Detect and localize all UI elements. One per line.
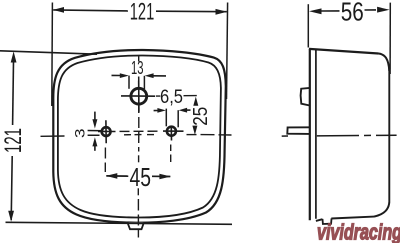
svg-text:25: 25 [190,107,212,126]
svg-text:121: 121 [130,0,155,25]
svg-text:vividracing: vividracing [317,220,400,243]
svg-text:3: 3 [72,128,87,138]
svg-text:13: 13 [131,57,144,78]
svg-text:121: 121 [0,128,27,153]
svg-text:56: 56 [341,0,364,27]
svg-text:6,5: 6,5 [160,87,183,108]
svg-text:45: 45 [129,162,151,192]
